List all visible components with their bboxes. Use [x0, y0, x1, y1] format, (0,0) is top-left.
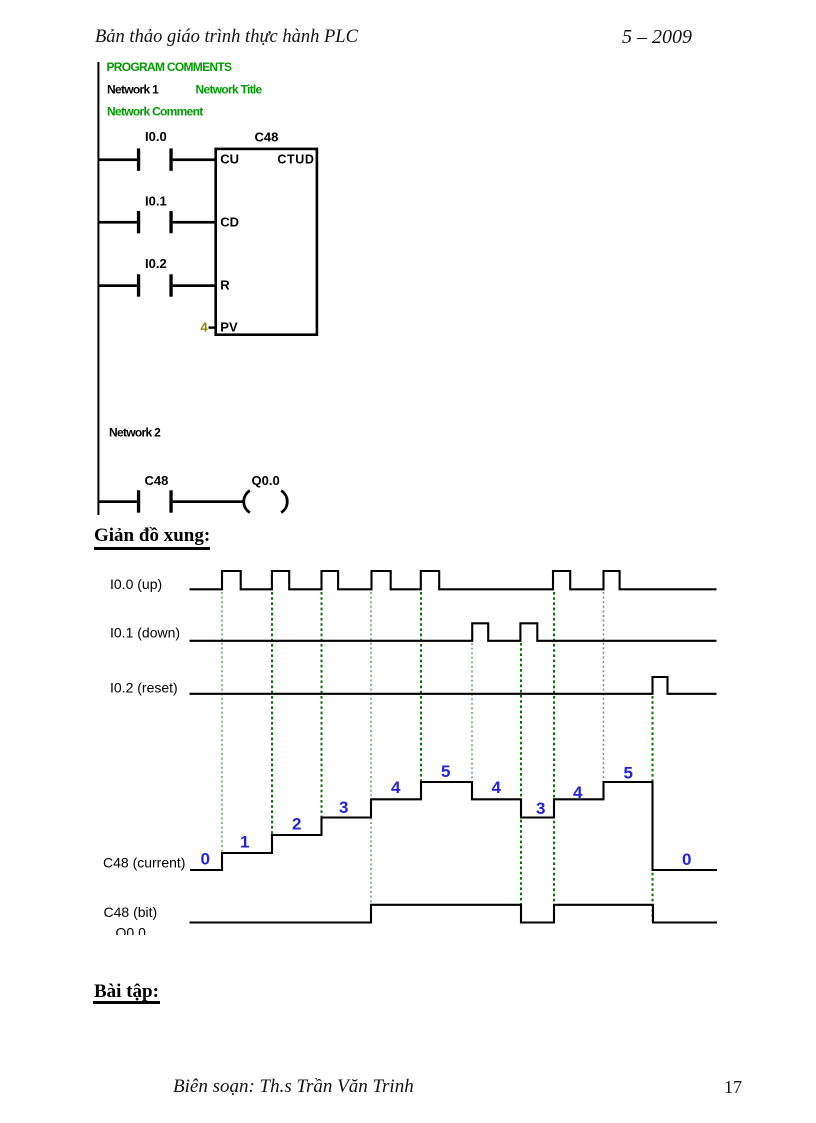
counter block U1 CTUD box [216, 149, 317, 335]
wire row2 left [98, 221, 137, 224]
svg-text:Network Title: Network Title [196, 83, 263, 97]
svg-text:5: 5 [624, 764, 633, 783]
contact I0.1 bar1 [137, 211, 140, 233]
waveform I0.0 [190, 571, 717, 589]
svg-text:2: 2 [292, 815, 301, 834]
wire row3 left [98, 284, 137, 287]
dotted guide line at 472 (I0.1 edge 1) [471, 643, 473, 798]
underline of heading 2 [93, 1001, 160, 1004]
svg-text:4: 4 [391, 778, 401, 797]
svg-text:Q0.0: Q0.0 [252, 473, 280, 488]
left power rail [97, 62, 99, 515]
svg-text:5: 5 [441, 762, 450, 781]
staircase C48 current value [190, 782, 717, 870]
svg-text:PROGRAM COMMENTS: PROGRAM COMMENTS [107, 60, 232, 74]
timing diagram SVG [90, 550, 750, 935]
dotted guide line at 652.5 (I0.2 edge) [652, 696, 654, 921]
header left: book title [95, 27, 358, 48]
svg-text:3: 3 [339, 798, 348, 817]
svg-text:Network 2: Network 2 [109, 426, 161, 440]
waveform I0.1 [190, 623, 717, 641]
coil Q0.0 left arc [244, 491, 250, 513]
svg-text:4: 4 [492, 778, 502, 797]
dotted guide line at 554 (I0.0 edge 6) [553, 592, 555, 904]
svg-text:0: 0 [682, 850, 691, 869]
underline of heading 1 [94, 547, 210, 550]
svg-text:I0.1: I0.1 [145, 194, 167, 209]
heading: Gian do xung [94, 525, 210, 547]
svg-text:R: R [220, 278, 230, 293]
footer: page number [724, 1077, 742, 1098]
svg-text:Network 1: Network 1 [107, 83, 159, 97]
svg-text:C48: C48 [255, 130, 279, 145]
wire row2 right [173, 221, 216, 224]
header right: date [622, 26, 692, 49]
contact I0.2 bar1 [137, 274, 140, 296]
svg-text:3: 3 [536, 799, 545, 818]
svg-text:I0.0: I0.0 [145, 129, 167, 144]
svg-text:1: 1 [240, 833, 249, 852]
svg-text:Q0.0: Q0.0 [116, 925, 147, 936]
contact C48 bar2 [169, 490, 172, 512]
svg-text:Network Comment: Network Comment [107, 105, 203, 119]
svg-text:C48 (current): C48 (current) [103, 855, 185, 871]
dotted guide line at 222 (I0.0 edge 1) [221, 592, 223, 869]
coil Q0.0 right arc [281, 491, 287, 513]
waveform I0.2 [190, 677, 717, 694]
svg-text:4: 4 [201, 320, 209, 335]
waveform C48 bit / Q0.0 [190, 905, 718, 923]
dotted guide line at 321.5 (I0.0 edge 3) [321, 592, 323, 818]
wire row3 right [173, 284, 216, 287]
svg-text:CD: CD [220, 215, 239, 230]
svg-text:I0.0 (up): I0.0 (up) [110, 576, 162, 592]
svg-text:I0.2 (reset): I0.2 (reset) [110, 680, 178, 696]
contact I0.2 bar2 [169, 274, 172, 296]
wire net2 left [98, 500, 137, 503]
wire net2 right [173, 500, 243, 503]
svg-text:CTUD: CTUD [277, 153, 314, 167]
svg-text:4: 4 [573, 783, 583, 802]
dotted guide line at 272 (I0.0 edge 2) [271, 592, 273, 835]
dotted guide line at 521 (I0.1 edge 2) [520, 643, 522, 921]
dotted guide line at 421 (I0.0 edge 5) [420, 592, 422, 781]
svg-text:PV: PV [220, 320, 238, 335]
contact I0.1 bar2 [169, 211, 172, 233]
contact I0.0 bar2 [169, 148, 172, 170]
contact C48 bar1 [137, 490, 140, 512]
svg-text:I0.2: I0.2 [145, 256, 167, 271]
dotted guide line at 371 (I0.0 edge 4) [370, 592, 372, 904]
svg-text:CU: CU [220, 152, 239, 167]
contact I0.0 bar1 [137, 148, 140, 170]
svg-text:I0.1 (down): I0.1 (down) [110, 625, 180, 641]
svg-text:C48: C48 [145, 473, 169, 488]
svg-text:0: 0 [201, 850, 210, 869]
PV stub wire [209, 326, 216, 328]
dotted guide line at 603.5 (I0.0 edge 7) [603, 592, 605, 781]
svg-text:C48 (bit): C48 (bit) [104, 904, 158, 920]
ladder diagram SVG [90, 50, 330, 520]
footer: author [173, 1076, 414, 1098]
wire row1 left [98, 158, 137, 161]
wire row1 right [173, 158, 216, 161]
heading: Bai tap [94, 981, 159, 1003]
